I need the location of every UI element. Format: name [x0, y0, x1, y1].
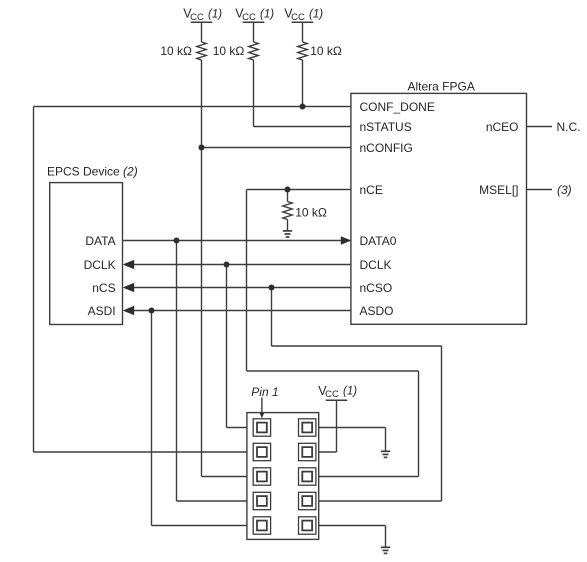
svg-text:Pin 1: Pin 1 — [251, 385, 278, 399]
svg-text:10 kΩ: 10 kΩ — [295, 206, 327, 220]
svg-text:CC: CC — [242, 12, 256, 23]
svg-text:ASDI: ASDI — [88, 304, 116, 318]
svg-text:DATA0: DATA0 — [360, 234, 397, 248]
svg-text:CC: CC — [291, 12, 305, 23]
svg-text:(1): (1) — [343, 386, 357, 398]
svg-text:ASDO: ASDO — [360, 304, 394, 318]
svg-text:10 kΩ: 10 kΩ — [160, 44, 192, 58]
svg-text:CC: CC — [190, 12, 204, 23]
svg-text:(1): (1) — [208, 8, 222, 20]
svg-text:(1): (1) — [309, 8, 323, 20]
svg-text:CONF_DONE: CONF_DONE — [360, 100, 435, 114]
svg-text:DATA: DATA — [85, 234, 115, 248]
svg-text:DCLK: DCLK — [84, 258, 116, 272]
svg-text:nCONFIG: nCONFIG — [360, 141, 413, 155]
svg-text:nCEO: nCEO — [486, 120, 519, 134]
svg-text:nSTATUS: nSTATUS — [360, 120, 412, 134]
svg-text:10 kΩ: 10 kΩ — [310, 44, 342, 58]
svg-text:(1): (1) — [260, 8, 274, 20]
svg-text:nCS: nCS — [92, 281, 115, 295]
svg-text:10 kΩ: 10 kΩ — [213, 44, 245, 58]
svg-text:nCSO: nCSO — [360, 281, 393, 295]
svg-text:DCLK: DCLK — [360, 258, 392, 272]
svg-text:(3): (3) — [557, 183, 572, 197]
svg-text:CC: CC — [325, 389, 339, 400]
svg-text:MSEL[]: MSEL[] — [479, 183, 518, 197]
svg-text:Altera FPGA: Altera FPGA — [408, 79, 475, 93]
svg-text:N.C.: N.C. — [557, 120, 581, 134]
svg-text:nCE: nCE — [360, 183, 383, 197]
svg-text:EPCS Device (2): EPCS Device (2) — [47, 164, 138, 178]
